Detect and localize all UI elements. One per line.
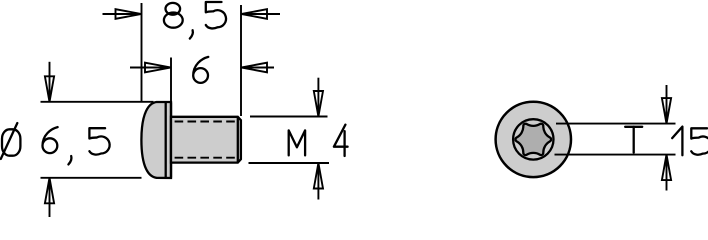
torx star recess T15 <box>515 124 551 155</box>
head washer-face line <box>170 102 172 177</box>
M4 arrow top <box>314 78 323 117</box>
screw head (button head, side view) <box>141 102 171 178</box>
dim text T 15 <box>625 127 708 156</box>
thread chamfer line at tip <box>237 117 239 162</box>
extension line thread-start <box>170 58 172 117</box>
screw head outer circle (front view) <box>496 102 571 177</box>
thread root dashed line top <box>175 121 238 123</box>
M4 arrow bottom <box>314 163 323 200</box>
dim text diameter 6,5 <box>1 123 110 164</box>
M4 extension line bottom <box>249 162 330 164</box>
dim line 6 right tail with arrow <box>241 63 274 73</box>
screw shaft (threaded, side view) <box>171 117 241 163</box>
diameter arrow bottom <box>45 178 54 217</box>
dim text 6 <box>193 57 208 83</box>
M4 extension line top <box>250 116 328 118</box>
extension line screw-end <box>240 5 242 116</box>
dim line 8,5 left tail with arrow <box>103 9 142 19</box>
thread root dashed line bottom <box>175 157 238 159</box>
diameter arrow top <box>45 62 54 102</box>
dim line 8,5 right tail with arrow <box>241 9 280 19</box>
T15 arrow top <box>662 85 671 124</box>
T15 leader line top <box>556 123 676 125</box>
extension line head-left <box>141 3 143 101</box>
T15 leader line bottom <box>555 154 676 156</box>
dim line 6 left tail with arrow <box>130 63 171 73</box>
diameter extension line top <box>41 101 154 103</box>
head rim edge line <box>165 102 167 177</box>
torx recess circle <box>513 119 553 159</box>
diameter extension line bottom <box>41 177 142 179</box>
dim text M 4 <box>289 125 348 156</box>
T15 arrow bottom <box>662 155 671 191</box>
dim text 8,5 <box>164 2 226 39</box>
